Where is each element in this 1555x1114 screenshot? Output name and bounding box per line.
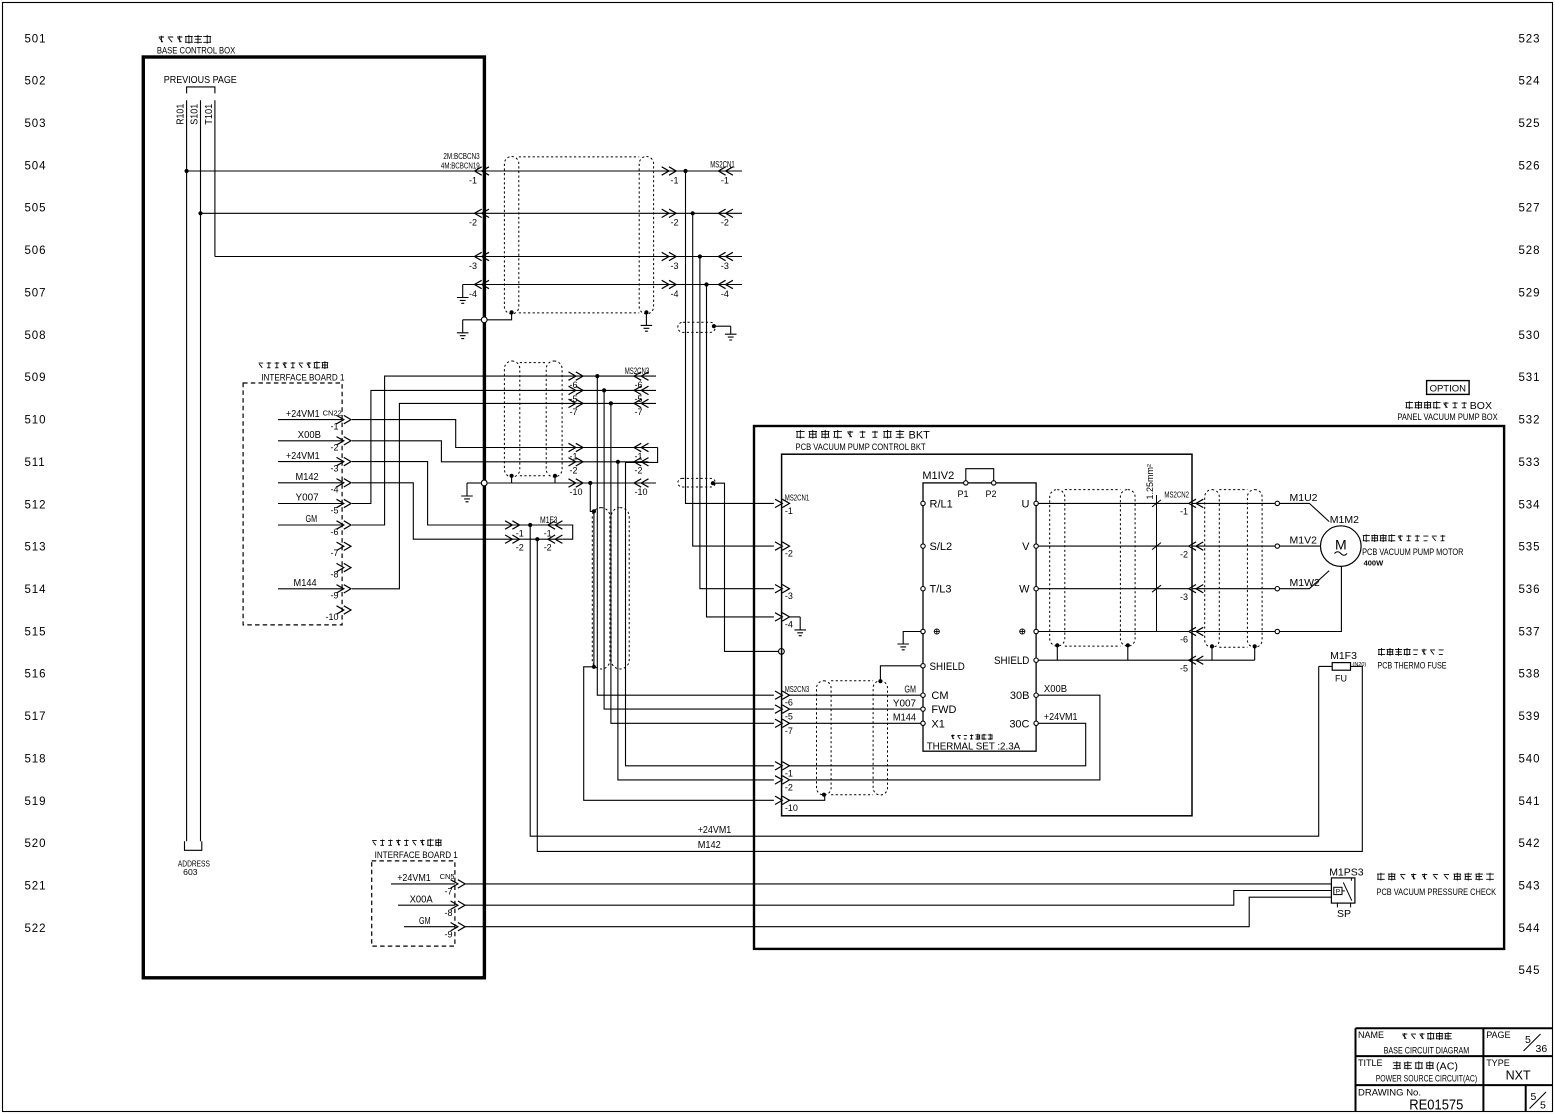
svg-text:-10: -10 [635, 487, 648, 497]
pressure switch M1PS3 body [1331, 878, 1355, 903]
connector CN5 pin -9 chevron [451, 923, 466, 931]
wire pump MS2CN3-6 to CM terminal [790, 694, 921, 696]
terminal FWD [921, 707, 925, 711]
connector MS2CN3 pump pin -10 chevron [775, 796, 790, 804]
svg-text:528: 528 [1519, 245, 1541, 257]
connector MS2CN2 pin -3 chevron [1189, 585, 1204, 593]
BASE CONTROL BOX enclosure [143, 57, 484, 978]
motor M1M2 body [1321, 526, 1362, 567]
wire MS2CN3-7 vertical to pump X1 [611, 403, 774, 723]
svg-text:-2: -2 [516, 543, 524, 553]
svg-text:PAGE: PAGE [1486, 1030, 1510, 1040]
svg-text:511: 511 [25, 457, 46, 469]
connector MS2CN3 mid pin -10 mating chevrons [569, 479, 584, 487]
ground G1 on row 507 [457, 285, 469, 304]
connector BCBCN pin -3 chevrons at base box edge [475, 252, 490, 260]
cable C2 bottom shield drain junction [711, 481, 715, 485]
connector CN22 pin -7 chevron [337, 542, 352, 550]
svg-text:MS2CN2: MS2CN2 [1164, 490, 1189, 500]
wire net T101 to MS2CN1-3 (row 506) [215, 256, 742, 258]
svg-text:RE01575: RE01575 [1409, 1098, 1463, 1114]
ground G5 [461, 483, 473, 502]
connector MS2CN1 pump pin -4 chevron [775, 613, 790, 621]
svg-text:-10: -10 [785, 803, 798, 813]
svg-text:W: W [1019, 584, 1030, 596]
svg-text:-6: -6 [785, 698, 793, 708]
node shield circle on BKT box edge [779, 649, 785, 655]
right margin line numbers 523-545 [1519, 33, 1541, 977]
svg-text:-3: -3 [469, 261, 477, 271]
wire +24VM1 CN5-7 to M1PS3 (row 543) [465, 883, 1331, 885]
svg-text:+24VM1: +24VM1 [698, 824, 732, 836]
junction S101/row505 [198, 211, 202, 215]
wire R101 vertical [186, 100, 188, 841]
svg-text:SP: SP [1337, 908, 1351, 920]
svg-text:30C: 30C [1009, 718, 1029, 730]
cable C4 shield outline (vertical bus to pump MS2CN3) [592, 508, 610, 669]
terminal SHIELD left [921, 664, 925, 668]
connector CN22 pin -3 chevron [337, 457, 352, 465]
junction MS2CN3 mid -2 [616, 460, 620, 464]
svg-text:FU: FU [1335, 674, 1347, 684]
ADDRESS 603 terminator bracket [185, 841, 202, 850]
connector MS2CN2 pin -2 chevron [1189, 542, 1204, 550]
connector MS2CN3 mid pin -6 mating chevrons [569, 372, 584, 380]
svg-text:-4: -4 [785, 619, 793, 629]
svg-text:THERMAL SET :2.3A: THERMAL SET :2.3A [927, 742, 1021, 753]
svg-text:CM: CM [931, 690, 948, 702]
svg-text:525: 525 [1519, 118, 1541, 130]
connector MS2CN3 pump pin -5 chevron [775, 705, 790, 713]
svg-text:536: 536 [1519, 584, 1541, 596]
wire stub GM inside board to pin -6 [278, 524, 342, 526]
svg-text:501: 501 [25, 33, 47, 45]
svg-text:GM: GM [306, 513, 318, 525]
connector MS2CN1 pin -4 mating chevrons [662, 280, 677, 288]
svg-text:-8: -8 [330, 569, 338, 579]
connector BCBCN pin -2 chevrons at base box edge [475, 209, 490, 217]
svg-text:GM: GM [419, 915, 431, 927]
svg-text:P2: P2 [986, 489, 997, 499]
label PCB VACUUM PUMP MOTOR [1363, 534, 1446, 542]
svg-text:538: 538 [1519, 669, 1541, 681]
svg-text:537: 537 [1519, 626, 1541, 638]
connector MS2CN1 pump pin -1 chevron [775, 499, 790, 507]
wire pump MS2CN3-7 to X1 terminal [790, 722, 921, 724]
junction MS2CN1-1 to vertical bus [683, 169, 687, 173]
svg-text:540: 540 [1519, 753, 1541, 765]
connector MS2CN3 mid pin -2 mating chevrons [569, 458, 584, 466]
label PCB VACUUM PUMP CONTROL BKT [796, 430, 904, 439]
svg-text:506: 506 [25, 245, 47, 257]
terminal earth right [1034, 629, 1038, 633]
cable C1 right shield drain junction [644, 310, 648, 314]
svg-text:M142: M142 [296, 471, 319, 483]
svg-text:510: 510 [25, 415, 47, 427]
wire net S101 to MS2CN1-2 (row 505) [201, 212, 743, 214]
junction M1F3-2 tap [535, 537, 539, 541]
wire X00B CN22-2 to MS2CN3-2 [352, 441, 649, 462]
junction cable C7 right drain [1253, 644, 1257, 648]
wire MS2CN3-1 U-turn and vertical to pump MS2CN3-1 [626, 448, 774, 766]
connector MS2CN1 pump pin -3 chevron [775, 585, 790, 593]
svg-text:519: 519 [25, 796, 47, 808]
svg-text:-7: -7 [444, 887, 452, 897]
svg-text:508: 508 [25, 330, 47, 342]
title block frame [1356, 1028, 1553, 1111]
wire U to MS2CN2-1 [1038, 502, 1189, 504]
svg-text:504: 504 [25, 160, 47, 172]
wire MS2CN1-4 vertical to pump earth [707, 285, 774, 617]
wire +24VM1 CN22-3 to M1F3-1 [352, 462, 573, 540]
terminal T/L3 [921, 587, 925, 591]
connector CN22 pin -2 chevron [337, 437, 352, 445]
wire stub X00A [398, 904, 455, 906]
svg-text:-2: -2 [635, 466, 643, 476]
wire MS2CN1-2 vertical to pump S/L2 [693, 213, 774, 546]
svg-text:-4: -4 [721, 289, 729, 299]
connector CN22 pin -1 chevron [337, 415, 352, 423]
cable C1 left shield drain wire to edge circle [487, 312, 512, 319]
wire net R101 to MS2CN1-1 (row 504) [187, 170, 742, 172]
svg-text:-3: -3 [785, 591, 793, 601]
svg-text:PREVIOUS PAGE: PREVIOUS PAGE [164, 74, 237, 86]
svg-text:-1: -1 [785, 768, 793, 778]
svg-text:PANEL VACUUM PUMP BOX: PANEL VACUUM PUMP BOX [1397, 412, 1497, 422]
svg-text:527: 527 [1519, 203, 1541, 215]
junction MS2CN3 mid -5 [602, 388, 606, 392]
wire M144 CN22-9 to MS2CN3-7 [352, 403, 656, 588]
svg-text:S101: S101 [190, 103, 201, 124]
wire stub +24VM1 [391, 883, 455, 885]
connector MS2CN1 pin -3 mating chevrons [662, 252, 677, 260]
svg-text:522: 522 [25, 923, 47, 935]
svg-text:534: 534 [1519, 499, 1541, 511]
junction MS2CN1-3 to vertical bus [698, 254, 702, 258]
connector MS2CN3 pump pin -7 chevron [775, 719, 790, 727]
label interface board 1 lower [372, 839, 442, 847]
OPTION tag box [1427, 381, 1470, 395]
svg-text:543: 543 [1519, 881, 1541, 893]
terminal S/L2 [921, 544, 925, 548]
svg-text:-4: -4 [670, 289, 678, 299]
cable C1 shield outline (base box to MS2CN1) [504, 157, 518, 314]
wire GM CN22-6 to MS2CN3-6 [352, 376, 656, 525]
connector MS2CN3 mid pin -7 mating chevrons [569, 399, 584, 407]
svg-text:MS2CN3: MS2CN3 [785, 684, 810, 694]
label PCB VACUUM PRESSURE CHECK [1377, 873, 1494, 881]
svg-text:PCB VACUUM PUMP CONTROL BKT: PCB VACUUM PUMP CONTROL BKT [796, 442, 926, 453]
svg-text:-2: -2 [570, 466, 578, 476]
svg-text:517: 517 [25, 711, 47, 723]
svg-text:-3: -3 [670, 261, 678, 271]
ground G2 [457, 320, 469, 339]
PANEL VACUUM PUMP BOX enclosure [754, 426, 1504, 949]
wire +24VM1 drop from M1F3-1 to thermo fuse [530, 525, 1318, 836]
wire pump MS2CN3-2 to 30B [790, 695, 1100, 780]
label PCB THERMO FUSE [1378, 648, 1444, 656]
svg-text:-1: -1 [785, 506, 793, 516]
svg-text:P: P [1336, 889, 1340, 896]
connector CN22 pin -10 chevron [337, 606, 352, 614]
terminal P2 [992, 481, 996, 485]
wire pump MS2CN3-5 to FWD terminal [790, 708, 921, 710]
wire earth to MS2CN1-4 (row 507) [463, 284, 742, 286]
terminal CM [921, 693, 925, 697]
svg-text:PCB VACUUM PUMP MOTOR: PCB VACUUM PUMP MOTOR [1362, 547, 1464, 558]
wire pump earth stub to ground G6 [790, 616, 801, 618]
svg-text:-10: -10 [325, 612, 338, 622]
svg-text:-8: -8 [444, 908, 452, 918]
svg-text:Y007: Y007 [296, 492, 319, 504]
svg-text:516: 516 [25, 669, 47, 681]
wire M1V2 to motor [1280, 545, 1321, 547]
svg-text:532: 532 [1519, 415, 1541, 427]
wire pump MS2CN3-10 to cable C5 shield [790, 795, 825, 801]
svg-text:X00B: X00B [298, 429, 321, 441]
terminal M1U2 [1275, 501, 1279, 505]
svg-text:-5: -5 [1180, 663, 1188, 673]
connector CN22 pin -8 chevron [337, 563, 352, 571]
svg-text:36: 36 [1536, 1043, 1548, 1055]
connector MS2CN2 pin -6 chevron [1189, 627, 1204, 635]
junction cable C5 top shield drain [878, 679, 882, 683]
svg-text:515: 515 [25, 626, 47, 638]
inverter M1IV2 body [923, 483, 1036, 751]
cable C3 left shield drain [510, 474, 514, 478]
connector MS2CN2 pin -5 chevron [1189, 656, 1204, 664]
svg-text:BOX: BOX [1470, 400, 1492, 412]
svg-text:BASE CIRCUIT DIAGRAM: BASE CIRCUIT DIAGRAM [1384, 1045, 1470, 1056]
svg-text:523: 523 [1519, 33, 1541, 45]
wire S101 vertical [200, 100, 202, 841]
junction cable C6 right drain [1126, 643, 1130, 647]
svg-text:-7: -7 [330, 548, 338, 558]
junction cable C6 left drain [1055, 643, 1059, 647]
svg-text:535: 535 [1519, 542, 1541, 554]
svg-text:M: M [1335, 537, 1347, 553]
connector M1F3 pin -1 mating chevrons [505, 521, 519, 529]
svg-text:INTERFACE BOARD 1: INTERFACE BOARD 1 [261, 373, 344, 384]
terminal earth-motor [1275, 629, 1279, 633]
wire +24VM1 CN22-1 to MS2CN3-1 [352, 420, 658, 448]
svg-text:M1F3: M1F3 [1330, 650, 1357, 662]
svg-text:531: 531 [1519, 372, 1541, 384]
thermo fuse FU body [1332, 663, 1350, 671]
cable C7 shield outline (motor cable) [1205, 490, 1220, 648]
svg-text:514: 514 [25, 584, 47, 596]
svg-text:-4: -4 [330, 485, 338, 495]
wire W to MS2CN2-3 [1038, 588, 1189, 590]
label thermal set value [951, 734, 992, 740]
svg-text:-2: -2 [330, 443, 338, 453]
svg-text:-2: -2 [785, 549, 793, 559]
wire MS2CN2-5 shield with cable C7 drains [1203, 659, 1254, 661]
svg-text:(N20): (N20) [1353, 662, 1367, 668]
svg-text:INTERFACE BOARD 1: INTERFACE BOARD 1 [375, 850, 458, 861]
ground G6 [794, 617, 806, 636]
wire SHIELD-left to cable C5 shield [880, 666, 920, 681]
svg-text:-5: -5 [785, 712, 793, 722]
svg-text:529: 529 [1519, 288, 1541, 300]
wire stub GM [404, 926, 455, 928]
connector CN5 pin -8 chevron [451, 901, 466, 909]
svg-text:-6: -6 [1180, 635, 1188, 645]
junction shield drain out of cable C4 bottom [592, 665, 596, 669]
svg-text:X00B: X00B [1044, 683, 1067, 695]
left margin line numbers 501-522 [25, 33, 47, 935]
wire MS2CN2-3 to M1W2 terminal [1192, 588, 1275, 590]
svg-text:M144: M144 [294, 577, 317, 589]
connector CN22 pin -4 chevron [337, 479, 352, 487]
wire MS2CN2-2 to M1V2 terminal [1192, 545, 1275, 547]
svg-text:544: 544 [1519, 923, 1541, 935]
wire M1U2 to motor [1280, 503, 1330, 521]
connector MS2CN3 pump pin -1 chevron [775, 762, 790, 770]
svg-text:-2: -2 [1180, 549, 1188, 559]
wire stub +24VM1 inside board to pin -1 [278, 419, 342, 421]
svg-text:539: 539 [1519, 711, 1541, 723]
svg-text:-2: -2 [469, 218, 477, 228]
wire GM CN5-9 to M1PS3 (row 544) [465, 897, 1331, 927]
svg-text:-6: -6 [330, 527, 338, 537]
svg-text:5: 5 [1540, 1100, 1546, 1112]
svg-text:513: 513 [25, 542, 47, 554]
wire motor earth [1280, 567, 1342, 632]
svg-text:-2: -2 [544, 543, 552, 553]
svg-text:541: 541 [1519, 796, 1541, 808]
ground G7 [897, 644, 909, 650]
connector MS2CN2 pin -1 chevron [1189, 499, 1204, 507]
svg-text:M144: M144 [893, 712, 916, 724]
cable C2 shield outline (vertical run to pump box) [678, 322, 716, 332]
svg-text:-3: -3 [721, 261, 729, 271]
connector BCBCN pin -4 chevrons at base box edge [475, 280, 490, 288]
svg-text:-2: -2 [721, 218, 729, 228]
terminal 30C [1034, 721, 1038, 725]
wire stub X00B inside board to pin -2 [278, 440, 342, 442]
wire M142 drop from M1F3-2 to thermo fuse [537, 539, 1362, 851]
wire stub M142 inside board to pin -4 [278, 482, 342, 484]
svg-text:T101: T101 [204, 103, 215, 124]
cable C5 shield outline (inside pump box) [817, 681, 832, 795]
wire X00A CN5-8 to M1PS3 [465, 891, 1331, 906]
wire M1W2 to motor [1280, 571, 1330, 589]
svg-text:+24VM1: +24VM1 [286, 450, 320, 462]
wire stub M144 inside board to pin -9 [278, 588, 342, 590]
svg-text:-9: -9 [330, 591, 338, 601]
svg-text:524: 524 [1519, 76, 1541, 88]
svg-text:503: 503 [25, 118, 47, 130]
svg-text:-5: -5 [330, 505, 338, 515]
connector MS2CN1 pin -1 mating chevrons [662, 167, 677, 175]
svg-text:PCB VACUUM PRESSURE CHECK: PCB VACUUM PRESSURE CHECK [1377, 887, 1497, 898]
connector CN22 pin -5 chevron [337, 499, 352, 507]
svg-text:X1: X1 [931, 718, 944, 730]
terminal R/L1 [921, 501, 925, 505]
terminal U [1034, 501, 1038, 505]
wire MS2CN2-6 earth to motor frame [1192, 631, 1275, 633]
svg-text:400W: 400W [1364, 558, 1385, 567]
svg-text:M1U2: M1U2 [1290, 492, 1318, 504]
svg-text:R/L1: R/L1 [930, 498, 953, 510]
cable C1 left shield drain junction [510, 310, 514, 314]
svg-text:502: 502 [25, 76, 47, 88]
wire edge circle to ground G5 [467, 482, 481, 484]
connector MS2CN3 pump pin -6 chevron [775, 691, 790, 699]
terminal M1V2 [1275, 544, 1279, 548]
svg-text:521: 521 [25, 881, 47, 893]
svg-text:512: 512 [25, 499, 47, 511]
svg-text:M1V2: M1V2 [1290, 535, 1318, 547]
svg-text:S/L2: S/L2 [930, 541, 953, 553]
connector CN5 pin -7 chevron [451, 880, 466, 888]
svg-text:530: 530 [1519, 330, 1541, 342]
junction cable C7 left drain [1210, 644, 1214, 648]
terminal earth left [921, 629, 925, 633]
wire T101 vertical [214, 100, 216, 256]
label interface board 1 upper [259, 361, 329, 369]
connector CN22 pin -6 chevron [337, 521, 352, 529]
junction MS2CN1-2 to vertical bus [691, 211, 695, 215]
svg-text:M1PS3: M1PS3 [1329, 867, 1364, 879]
node shield/earth circle on base box edge (row 507.5) [481, 317, 487, 323]
junction shield drain into cable C4 top [592, 509, 596, 513]
svg-text:-10: -10 [570, 487, 583, 497]
svg-text:V: V [1022, 541, 1030, 553]
wire cable C2 bottom drain to BKT shield circle [713, 483, 779, 651]
svg-text:520: 520 [25, 838, 47, 850]
terminal P1 [964, 481, 968, 485]
jumper P1-P2 [966, 469, 994, 481]
svg-text:-1: -1 [469, 175, 477, 185]
svg-text:TITLE: TITLE [1358, 1058, 1383, 1068]
previous-page bracket [187, 87, 215, 94]
ground G4 [725, 326, 737, 340]
connector MS2CN1 pin -2 mating chevrons [662, 209, 677, 217]
svg-text:BASE CONTROL BOX: BASE CONTROL BOX [157, 46, 236, 57]
wire MS2CN2-1 to M1U2 terminal [1192, 502, 1275, 504]
svg-text:542: 542 [1519, 838, 1541, 850]
svg-text:4M:BCBCN19: 4M:BCBCN19 [441, 161, 480, 170]
svg-text:PCB THERMO FUSE: PCB THERMO FUSE [1377, 660, 1446, 671]
svg-text:U: U [1022, 498, 1030, 510]
wire earth-left to ground G7 [903, 632, 921, 645]
svg-text:(AC): (AC) [1436, 1061, 1458, 1073]
svg-text:OPTION: OPTION [1430, 383, 1467, 394]
svg-text:-1: -1 [1180, 507, 1188, 517]
connector MS2CN3 mid pin -5 mating chevrons [569, 386, 584, 394]
svg-text:526: 526 [1519, 160, 1541, 172]
svg-text:-3: -3 [1180, 592, 1188, 602]
svg-text:-2: -2 [670, 218, 678, 228]
svg-text:X00A: X00A [410, 893, 433, 905]
label PANEL VACUUM PUMP BOX [1406, 401, 1467, 409]
wire pump MS2CN3-1 to 30C [790, 723, 1086, 766]
junction MS2CN3 mid -7 [609, 401, 613, 405]
svg-text:518: 518 [25, 753, 47, 765]
wire MS2CN3-6 vertical to pump CM [597, 376, 774, 695]
svg-text:NXT: NXT [1506, 1068, 1531, 1083]
terminal X1 [921, 721, 925, 725]
junction MS2CN3 mid -10 [588, 481, 592, 485]
svg-text:BKT: BKT [909, 430, 931, 442]
cable C2 top shield drain junction [712, 324, 716, 328]
wire shield drain vertical to pump MS2CN3-10 [584, 483, 774, 800]
svg-text:533: 533 [1519, 457, 1541, 469]
wire MS2CN1-1 vertical+horizontal to pump R/L1 [686, 171, 774, 503]
cable C6 shield outline (inverter to MS2CN2) [1050, 490, 1065, 646]
